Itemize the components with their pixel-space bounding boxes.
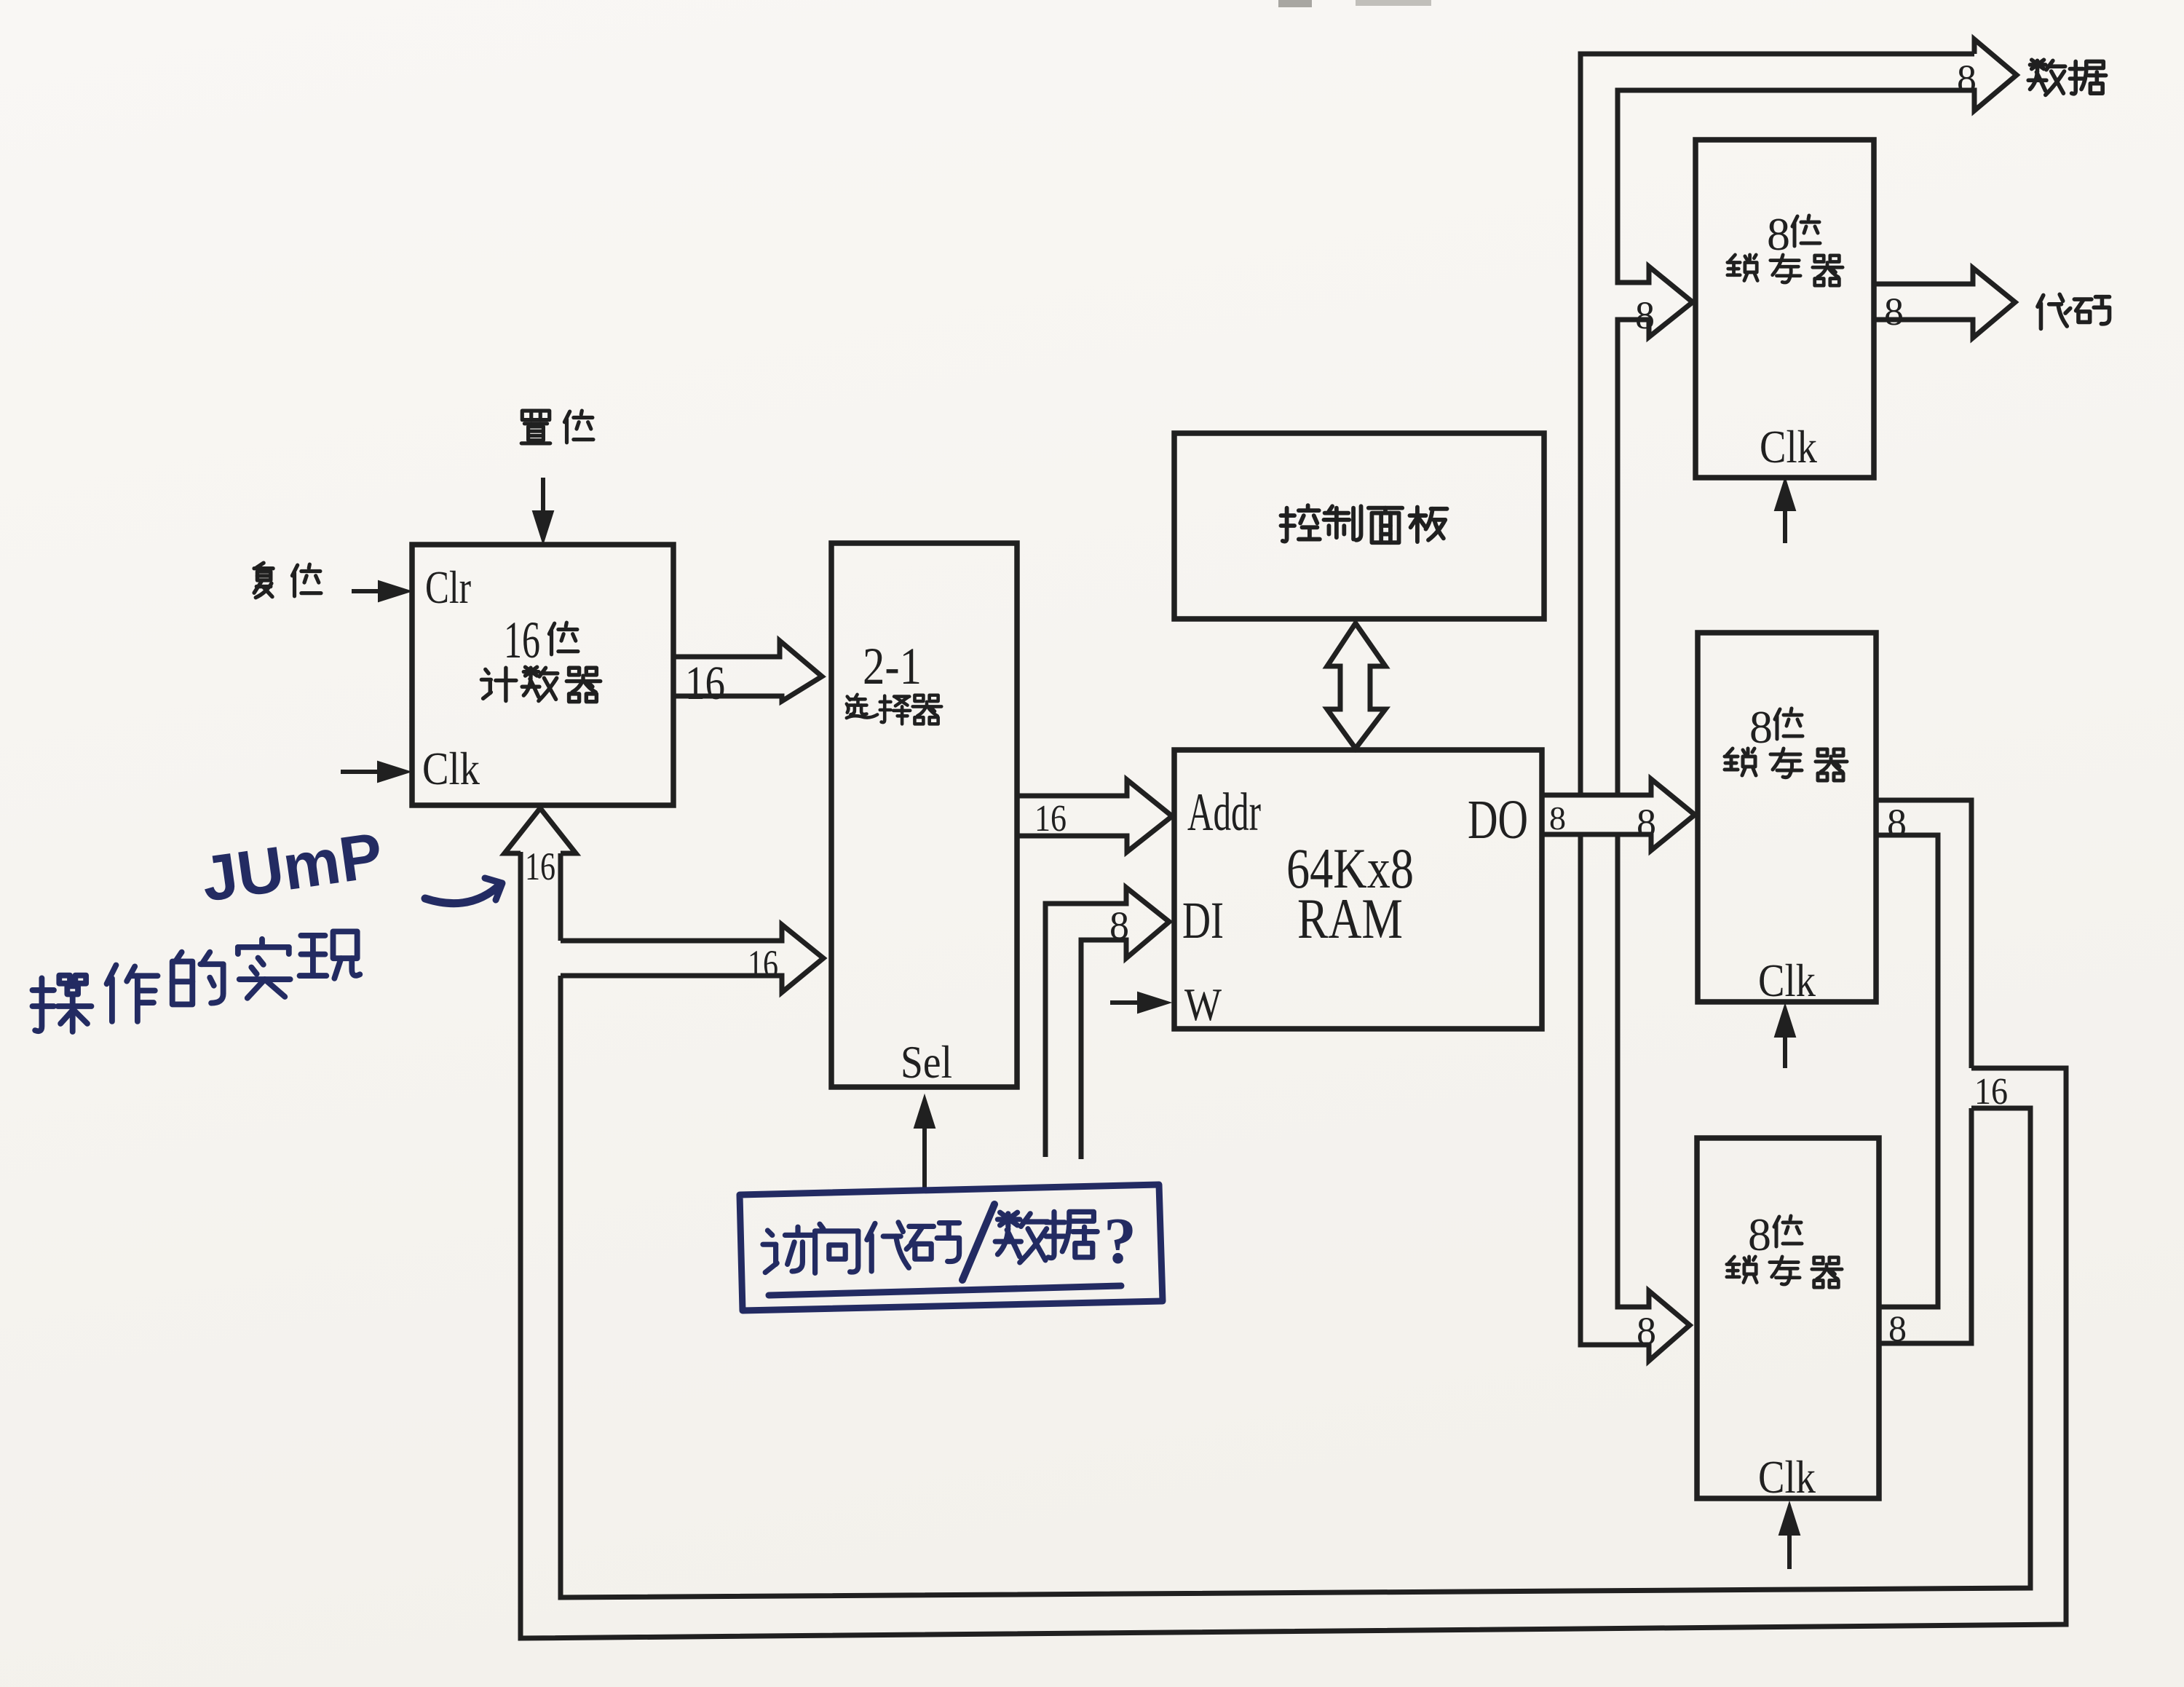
bus: riser lower segments to bottom latch input, open arrow [1580,834,1690,1361]
svg-text:8: 8 [1748,1209,1771,1260]
svg-text:DI: DI [1182,891,1224,949]
label: 复位 (reset) [254,563,273,598]
svg-text:Addr: Addr [1187,783,1261,842]
block: 64Kx8 RAM [1174,750,1542,1029]
bus: latch2 output bottom edge, inner vertical, latch3 output top edge [1876,835,1938,1307]
svg-text:Clk: Clk [1758,1451,1816,1503]
svg-text:DO: DO [1468,789,1528,850]
svg-text:16: 16 [748,942,778,986]
svg-text:8: 8 [1887,801,1907,845]
svg-text:8: 8 [1888,1308,1907,1348]
wire: DO riser upper edge to data-out bus top edge [1580,54,1974,795]
scan smudge top edge [1278,0,1312,7]
bus: lower 16 branch to selector, open arrow [561,925,823,992]
svg-text:16: 16 [685,657,725,710]
arrow: set (置位) input into counter top [541,478,545,515]
svg-text:8: 8 [1767,208,1790,260]
arrow: write into RAM W [1110,1000,1142,1005]
block: 16-bit counter (16位计数器) [412,545,673,805]
bus: counter output 16 to selector, open arrow [673,641,822,701]
bus: latch2 output top edge down right vertical [1876,800,1971,1068]
svg-text:2-1: 2-1 [863,637,922,695]
svg-text:Clk: Clk [1758,955,1816,1006]
svg-text:W: W [1184,979,1222,1030]
arrow: clock into counter Clk [341,770,382,774]
label: 数据 (data out) [2028,60,2065,95]
bus: data out (数据) head, lower edge, branch to latch1 input [1618,39,2017,795]
svg-text:8: 8 [1635,293,1655,337]
svg-text:Clk: Clk [422,743,480,794]
handwriting: blue curved arrow pointing at 16 shaft [425,884,501,904]
svg-text:8: 8 [1637,801,1656,845]
arrow: clock into latch2 Clk [1783,1032,1787,1068]
arrow: clock into latch3 Clk [1787,1530,1792,1569]
svg-text:8: 8 [1749,701,1773,753]
bus: hollow up-arrow head 16 into counter [505,808,576,853]
svg-text:8: 8 [1884,290,1904,333]
bidirectional hollow arrow: control panel <-> RAM [1327,623,1385,748]
label: 选择器 (selector line 2) [847,695,877,718]
svg-text:16: 16 [1974,1071,2008,1113]
arrow: reset (复位) into Clr [352,589,383,593]
label: 锁存器 (latch2 line 2) [1725,748,1756,775]
label: 置位 (set) [521,411,550,443]
label: 代码 (code out) [2038,294,2070,328]
svg-text:16: 16 [1034,798,1067,839]
bus: 16-bit jump loop outer path (tap top edge, right side, bottom, left side) [521,852,2066,1638]
label: 控制面板 (control panel) [1281,505,1319,541]
svg-text:Sel: Sel [901,1036,952,1088]
block: 8-bit latch 1 (top, code latch) [1696,140,1874,478]
svg-text:RAM: RAM [1297,887,1403,950]
bus: latch1 output 8 to code out (代码), open arrow [1874,268,2015,338]
block: 2-1 selector (2-1选择器) [831,543,1017,1087]
svg-text:?: ? [1104,1205,1136,1277]
block: 8-bit latch 2 (middle) [1698,633,1876,1002]
svg-text:8: 8 [1957,57,1977,100]
wire: inner left vertical above branch [558,853,563,941]
arrow: clock into latch1 Clk [1783,506,1787,543]
bus: selector output 16 to RAM Addr, open arrow [1017,780,1172,852]
svg-text:Clr: Clr [425,561,471,613]
svg-text:16: 16 [504,611,540,669]
bus: DI input 8 to RAM, open arrow with vertical feed pair [1045,888,1169,1159]
svg-text:8: 8 [1109,904,1129,947]
block: 8-bit latch 3 (bottom) [1697,1138,1879,1498]
block: control panel (控制面板) [1174,433,1544,619]
label: 锁存器 (latch3 line 2) [1727,1257,1757,1283]
bus: 16-bit jump loop inner path [561,976,2030,1597]
handwriting: 操作的实现 (implementation of the operation) [33,976,92,1032]
svg-text:8: 8 [1549,799,1566,837]
handwriting: blue box 访问代码/数据? (access code/data?) [740,1185,1163,1311]
svg-text:8: 8 [1637,1309,1656,1353]
label: 计数器 (counter line 2) [481,668,516,700]
bus: right vertical lower segment and latch3 output bottom edge [1879,1108,1971,1343]
svg-text:16: 16 [525,845,555,888]
label: 锁存器 (latch1 line 2) [1728,255,1757,281]
bus: RAM DO output 8 to middle latch, open arrow [1542,779,1695,850]
svg-text:Clk: Clk [1760,421,1817,473]
arrow: select signal into Sel [922,1123,927,1188]
